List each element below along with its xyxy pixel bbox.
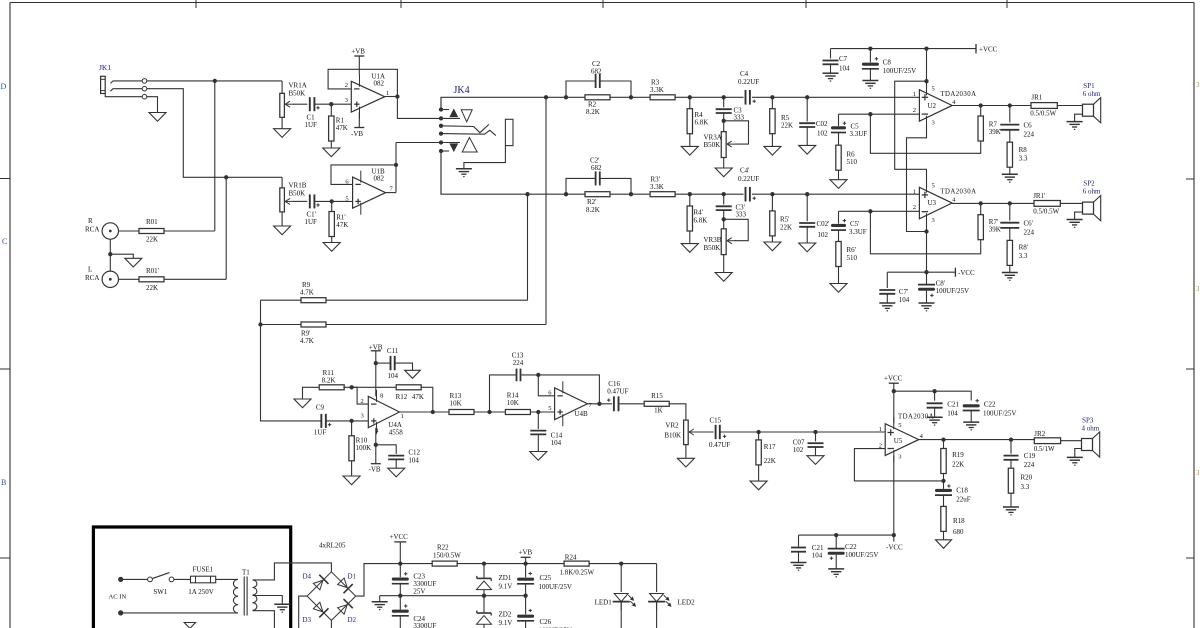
junction bottom rail R9 [525, 192, 529, 196]
capacitor C21 [934, 391, 936, 401]
svg-text:22K: 22K [952, 461, 964, 469]
svg-text:B: B [1, 478, 6, 487]
ground VR3B [715, 273, 732, 282]
ground R11 [294, 399, 311, 408]
ground C11 [405, 370, 421, 378]
svg-text:C02: C02 [816, 120, 828, 128]
schematic sheet border left [9, 3, 11, 628]
junction C6 top [1008, 103, 1012, 107]
border tick right 3 [1186, 557, 1194, 559]
wire U1B output riser [395, 143, 397, 193]
capacitor C8' [926, 272, 928, 284]
svg-text:FUSE1: FUSE1 [193, 566, 214, 574]
resistor R6' [838, 230, 840, 241]
ground C8' [919, 302, 935, 304]
capacitor C14 [537, 412, 539, 429]
svg-text:3300UF: 3300UF [413, 622, 436, 628]
svg-text:C21: C21 [947, 401, 959, 409]
wire fb to U4A pin2 [352, 387, 369, 404]
capacitor C12 [376, 445, 396, 454]
svg-text:B50K: B50K [704, 141, 721, 149]
svg-text:AC IN: AC IN [109, 594, 127, 601]
wire U1B pin6 feedback [331, 165, 396, 185]
svg-text:TDA2030A: TDA2030A [940, 91, 976, 98]
svg-text:104: 104 [839, 65, 850, 73]
svg-text:-VCC: -VCC [886, 544, 903, 552]
svg-text:U2: U2 [928, 102, 937, 110]
svg-text:B10K: B10K [664, 432, 681, 440]
wire mix node down [261, 325, 322, 421]
ground R4 [681, 146, 698, 155]
junction U1B feedback [394, 163, 398, 167]
svg-text:104: 104 [408, 457, 419, 465]
border tick right 1 [1186, 178, 1194, 180]
svg-text:1: 1 [401, 413, 404, 420]
switch SW1 [148, 577, 153, 582]
transformer T1 secondary [253, 580, 257, 588]
wire RCA L to R01' [119, 278, 140, 280]
junction C8 rail [868, 46, 872, 50]
capacitor C13 [516, 369, 518, 382]
resistor JR1' [1034, 201, 1060, 207]
schematic sheet border top [10, 2, 1194, 4]
capacitor C9 [320, 414, 322, 428]
wire LED1 down [620, 602, 622, 628]
wire JK4 bottom rail [441, 151, 566, 194]
resistor R22 [432, 561, 457, 566]
svg-text:3: 3 [361, 412, 364, 419]
ground VR2 [677, 458, 694, 467]
junction C11 tap [374, 361, 378, 365]
svg-text:LED2: LED2 [678, 598, 696, 606]
potentiometer VR2 [684, 420, 689, 445]
wire C22' ground [835, 555, 837, 569]
svg-text:100UF/25V: 100UF/25V [883, 67, 916, 75]
svg-text:R6': R6' [847, 246, 856, 254]
wire U1B out to JK4 [396, 142, 441, 144]
wire AC live [121, 578, 148, 580]
bridge edge D2 [331, 596, 355, 620]
wire RCA ground stub [110, 254, 133, 258]
svg-text:224: 224 [513, 359, 524, 367]
svg-text:6.8K: 6.8K [695, 119, 709, 127]
power rail +VCC top [831, 48, 977, 50]
led LED1 [614, 594, 628, 602]
resistor R15 [644, 401, 669, 406]
resistor R2' [585, 192, 610, 197]
wire VR2 wiper to C15 [697, 431, 714, 433]
connector JK4 pin feed 2 [441, 117, 460, 119]
resistor R2 [585, 95, 610, 100]
junction C19 top [1009, 437, 1013, 441]
ground R17 [750, 481, 767, 490]
wire R-in riser to R01 [214, 81, 216, 231]
wire C2 loop [566, 81, 595, 97]
connector R RCA jack [102, 223, 118, 239]
junction R13 R14 [487, 410, 491, 414]
svg-text:R2': R2' [587, 198, 596, 206]
connector JK1 ring contact [110, 89, 142, 92]
svg-text:1K: 1K [654, 407, 663, 415]
svg-text:100UF/25V: 100UF/25V [936, 287, 969, 295]
ground VR1A [274, 129, 291, 138]
junction U5 vcc [892, 389, 896, 393]
svg-text:C02': C02' [817, 220, 830, 228]
svg-text:R15: R15 [651, 392, 663, 400]
svg-text:5: 5 [345, 195, 348, 202]
svg-text:-VCC: -VCC [958, 269, 975, 277]
svg-text:JR2: JR2 [1034, 430, 1045, 438]
wire U5 pin2 feedback [854, 449, 943, 481]
wire C2 left stub [566, 96, 585, 98]
power -VB U1A [358, 112, 360, 127]
wire C4' to U3 [752, 193, 920, 195]
svg-text:R8: R8 [1019, 146, 1028, 154]
wire R9' row [261, 324, 302, 326]
capacitor C7' [886, 272, 888, 288]
wire C2' loop [566, 178, 595, 194]
svg-text:+VCC: +VCC [390, 533, 409, 541]
resistor R9 [301, 298, 326, 303]
wire R9' riser [545, 97, 547, 324]
bridge edge D3 [307, 596, 331, 620]
junction C21 tap [932, 389, 936, 393]
junction R9 R9' [258, 322, 262, 326]
svg-text:8.2K: 8.2K [322, 376, 336, 384]
ground C8 [862, 80, 878, 82]
ground VR1B [274, 226, 291, 235]
isolation box [93, 527, 290, 628]
junction R17 top [756, 430, 760, 434]
svg-text:25V: 25V [413, 588, 425, 596]
svg-text:3: 3 [932, 120, 935, 127]
capacitor C5' [838, 211, 840, 223]
wire U5 output [919, 439, 1035, 441]
wire JK1 ring to L bus [147, 89, 282, 178]
ground R8 [1002, 173, 1018, 175]
connector L RCA jack [102, 271, 118, 287]
resistor R3' [650, 192, 675, 197]
svg-text:C22: C22 [984, 401, 996, 409]
wire JK4 sleeve ground [464, 146, 506, 169]
junction C2 left [564, 95, 568, 99]
speaker SP3 [1082, 439, 1093, 451]
junction C02 top [805, 95, 809, 99]
svg-text:C7: C7 [839, 55, 848, 63]
svg-text:3.3UF: 3.3UF [849, 228, 867, 236]
svg-text:JR1': JR1' [1033, 192, 1045, 200]
diode D4 [313, 580, 323, 590]
wire U1B output [386, 192, 396, 194]
resistor R18 [943, 496, 945, 507]
wire C2' left stub [566, 193, 585, 195]
wire R19 to C18 [943, 474, 945, 489]
junction U2 U3 pin3 [924, 229, 928, 233]
svg-text:3: 3 [932, 217, 935, 224]
resistor R9' [301, 322, 326, 327]
junction U4A out [431, 410, 435, 414]
ground SP2 [1067, 219, 1083, 221]
op-amp U1B [353, 177, 386, 208]
connector JK4 break contact down [462, 138, 477, 153]
junction C5' top [868, 209, 872, 213]
capacitor C22 [963, 404, 980, 407]
junction R11 R12 [349, 385, 353, 389]
wire SP3 ground [1075, 449, 1082, 458]
svg-text:102: 102 [793, 446, 804, 454]
svg-text:104: 104 [551, 439, 562, 447]
ground R6' [830, 284, 847, 293]
junction R5 top [770, 95, 774, 99]
svg-text:22K: 22K [780, 224, 792, 232]
svg-text:+VB: +VB [351, 48, 365, 56]
ground SP1 [1067, 121, 1083, 123]
op-amp U1A [351, 81, 384, 112]
wire SW1 to FUSE1 [174, 578, 191, 580]
capacitor C23 [399, 564, 401, 578]
ground C07 [807, 456, 824, 465]
wire U4A pin4 down [375, 428, 377, 464]
wire R20 ground [1010, 493, 1012, 507]
svg-text:D2: D2 [348, 616, 357, 624]
capacitor C16 [613, 396, 615, 411]
svg-text:B50K: B50K [289, 90, 306, 98]
svg-text:0.5/0.5W: 0.5/0.5W [1033, 208, 1059, 216]
wire R1 to ground [330, 141, 332, 148]
ground C7 [823, 72, 839, 74]
svg-text:R01: R01 [146, 218, 158, 226]
junction C1 R1 [329, 102, 333, 106]
svg-text:+VB: +VB [519, 549, 533, 557]
power -VB U4A [371, 463, 381, 465]
wire VR2 ground [685, 445, 687, 459]
wire C7 ground [830, 64, 832, 73]
ground JK4 [456, 168, 472, 170]
junction C2 right [629, 95, 633, 99]
junction C12 tap [374, 443, 378, 447]
junction top rail R9' [544, 95, 548, 99]
svg-text:224: 224 [1024, 131, 1035, 139]
svg-text:B50K: B50K [289, 190, 306, 198]
wire C13 rail [490, 375, 516, 412]
wire bridge plus [356, 564, 401, 597]
capacitor C7 [830, 49, 832, 59]
ground R1' [323, 243, 340, 252]
wire R10 ground [351, 461, 353, 476]
svg-text:104: 104 [899, 296, 910, 304]
wire LED2 down [656, 602, 658, 628]
power +VB U5 rail [893, 383, 895, 423]
junction R4 top [688, 95, 692, 99]
wire R17 ground [758, 465, 760, 481]
svg-text:R: R [88, 217, 93, 225]
op-amp U3 [919, 187, 952, 219]
wire U2 pin3 to -VCC [907, 124, 927, 232]
svg-text:-VB: -VB [369, 466, 381, 474]
wire R11 to R12 [343, 386, 396, 388]
junction C14 top [536, 410, 540, 414]
ground R18 [936, 540, 952, 549]
wire FUSE1 to T1 [216, 578, 238, 580]
svg-text:RCA: RCA [85, 274, 99, 282]
capacitor C2' [595, 171, 597, 185]
svg-text:3.3UF: 3.3UF [850, 130, 868, 138]
svg-text:333: 333 [736, 211, 747, 219]
svg-text:D4: D4 [303, 573, 312, 581]
svg-text:JK4: JK4 [454, 85, 470, 96]
wire JR1 to SP1 [1057, 105, 1082, 107]
svg-text:D3: D3 [303, 616, 312, 624]
svg-text:C26: C26 [540, 618, 552, 626]
junction RCA ground [108, 252, 112, 256]
resistor R4 [689, 97, 691, 108]
wire C4 to U2 [752, 96, 920, 98]
wire R13 to R14 [474, 411, 505, 413]
svg-text:JR1: JR1 [1031, 94, 1042, 102]
svg-text:C6': C6' [1024, 220, 1033, 228]
border tick top 4 [805, 0, 807, 8]
wire U4B output [587, 403, 612, 405]
svg-text:R01': R01' [146, 267, 159, 275]
junction C6' top [1008, 201, 1012, 205]
junction U1A output [395, 94, 399, 98]
svg-text:22K: 22K [146, 284, 158, 292]
svg-text:SP3: SP3 [1082, 417, 1094, 425]
wire R12 to output [421, 387, 433, 412]
svg-text:47K: 47K [336, 221, 348, 229]
svg-text:4.7K: 4.7K [300, 289, 314, 297]
border tick top 1 [195, 0, 197, 8]
svg-text:R18: R18 [953, 517, 965, 525]
svg-text:R17: R17 [764, 443, 776, 451]
wire C14 ground [537, 434, 539, 451]
junction R5' top [770, 192, 774, 196]
resistor R01' [139, 277, 164, 282]
wire node R-in row [147, 80, 282, 82]
power rail +VB bottom [458, 563, 657, 565]
junction VR3B wiper loop [722, 217, 726, 221]
capacitor C18 [935, 489, 952, 492]
ground AC inlet partial [184, 623, 195, 628]
wire C15 to U5 [720, 431, 885, 433]
capacitor C2 [595, 74, 597, 88]
ground 0V [372, 601, 388, 603]
svg-text:3: 3 [345, 97, 348, 104]
resistor R13 [449, 410, 474, 415]
resistor R7 [980, 106, 982, 117]
capacitor C26 [525, 596, 527, 615]
svg-text:VR1A: VR1A [289, 82, 307, 90]
capacitor C07 [815, 432, 817, 441]
connector JK4 break contact up [461, 110, 472, 122]
svg-text:3: 3 [1196, 469, 1200, 477]
power symbol +VB bottom [525, 557, 527, 563]
svg-text:C25: C25 [540, 574, 552, 582]
capacitor C4 [745, 90, 747, 105]
wire C21' ground [798, 552, 800, 563]
power rail +VCC bottom [400, 563, 432, 565]
svg-text:4xRL205: 4xRL205 [319, 542, 346, 550]
junction C1' R1' [330, 199, 334, 203]
svg-text:1: 1 [913, 91, 916, 98]
junction ZD mid [482, 594, 486, 598]
svg-text:682: 682 [591, 164, 602, 172]
svg-text:9.1V: 9.1V [499, 619, 513, 627]
wire AC neutral [121, 612, 238, 614]
ground C02' [799, 243, 816, 252]
resistor R19 [943, 440, 945, 449]
junction R-in [213, 79, 217, 83]
svg-text:R5': R5' [780, 216, 789, 224]
wire R01 to riser [164, 230, 215, 232]
connector JK1 sleeve wire [105, 94, 142, 97]
svg-text:SW1: SW1 [153, 588, 168, 596]
wire U1A pin2 feedback [328, 69, 397, 96]
svg-text:C12: C12 [408, 449, 420, 457]
svg-text:U3: U3 [928, 199, 937, 207]
svg-text:3: 3 [1196, 285, 1200, 293]
wire C07 ground [815, 447, 817, 456]
wire C3' to VR3B [723, 210, 725, 229]
junction C26 top [523, 594, 527, 598]
svg-text:680: 680 [953, 528, 964, 536]
connector JK1 body [101, 76, 106, 93]
svg-text:682: 682 [591, 68, 602, 76]
schematic sheet border right [1193, 3, 1195, 628]
resistor R17 [758, 432, 760, 440]
junction R19 C18 [941, 479, 945, 483]
wire VR3B wiper loop [724, 219, 749, 240]
svg-text:C18: C18 [956, 487, 968, 495]
resistor R14 [505, 410, 530, 415]
capacitor C6 [1009, 106, 1011, 123]
svg-text:+VCC: +VCC [979, 46, 998, 54]
svg-text:102: 102 [818, 231, 829, 239]
wire U4B pin6 [538, 375, 554, 396]
svg-text:R8': R8' [1019, 244, 1028, 252]
junction +VCC node [398, 561, 402, 565]
svg-text:22K: 22K [764, 457, 776, 465]
capacitor C3 [723, 97, 725, 107]
wire C16 to R15 [619, 403, 645, 405]
svg-text:150/0.5W: 150/0.5W [433, 552, 461, 560]
connector JK1 pin circle 1 [142, 79, 147, 84]
wire LED2 corner [656, 564, 658, 592]
svg-text:102: 102 [817, 130, 828, 138]
svg-text:510: 510 [847, 158, 858, 166]
wire U2 pin2 row [839, 113, 920, 115]
resistor R1' [331, 201, 333, 211]
wire T1 secondary bottom [253, 611, 275, 628]
svg-text:C9: C9 [316, 404, 325, 412]
wire 0V ground drop [379, 596, 381, 602]
potentiometer VR3B [721, 229, 726, 255]
wire C24 down [399, 616, 401, 628]
resistor JR1 [1031, 103, 1057, 109]
resistor R12 [396, 385, 421, 390]
wire R3 to C4 [675, 96, 744, 98]
wire U3 output [952, 202, 1034, 204]
wire U3 pin2 row [839, 210, 920, 212]
svg-text:R22: R22 [437, 544, 449, 552]
resistor R8 [1009, 130, 1011, 142]
ground R8' [1002, 272, 1018, 274]
wire bridge minus [299, 596, 307, 628]
speaker SP1 [1083, 104, 1094, 116]
capacitor C11 [376, 362, 391, 364]
ground T1 center tap [274, 603, 290, 605]
wire JK4 top rail [441, 97, 566, 109]
